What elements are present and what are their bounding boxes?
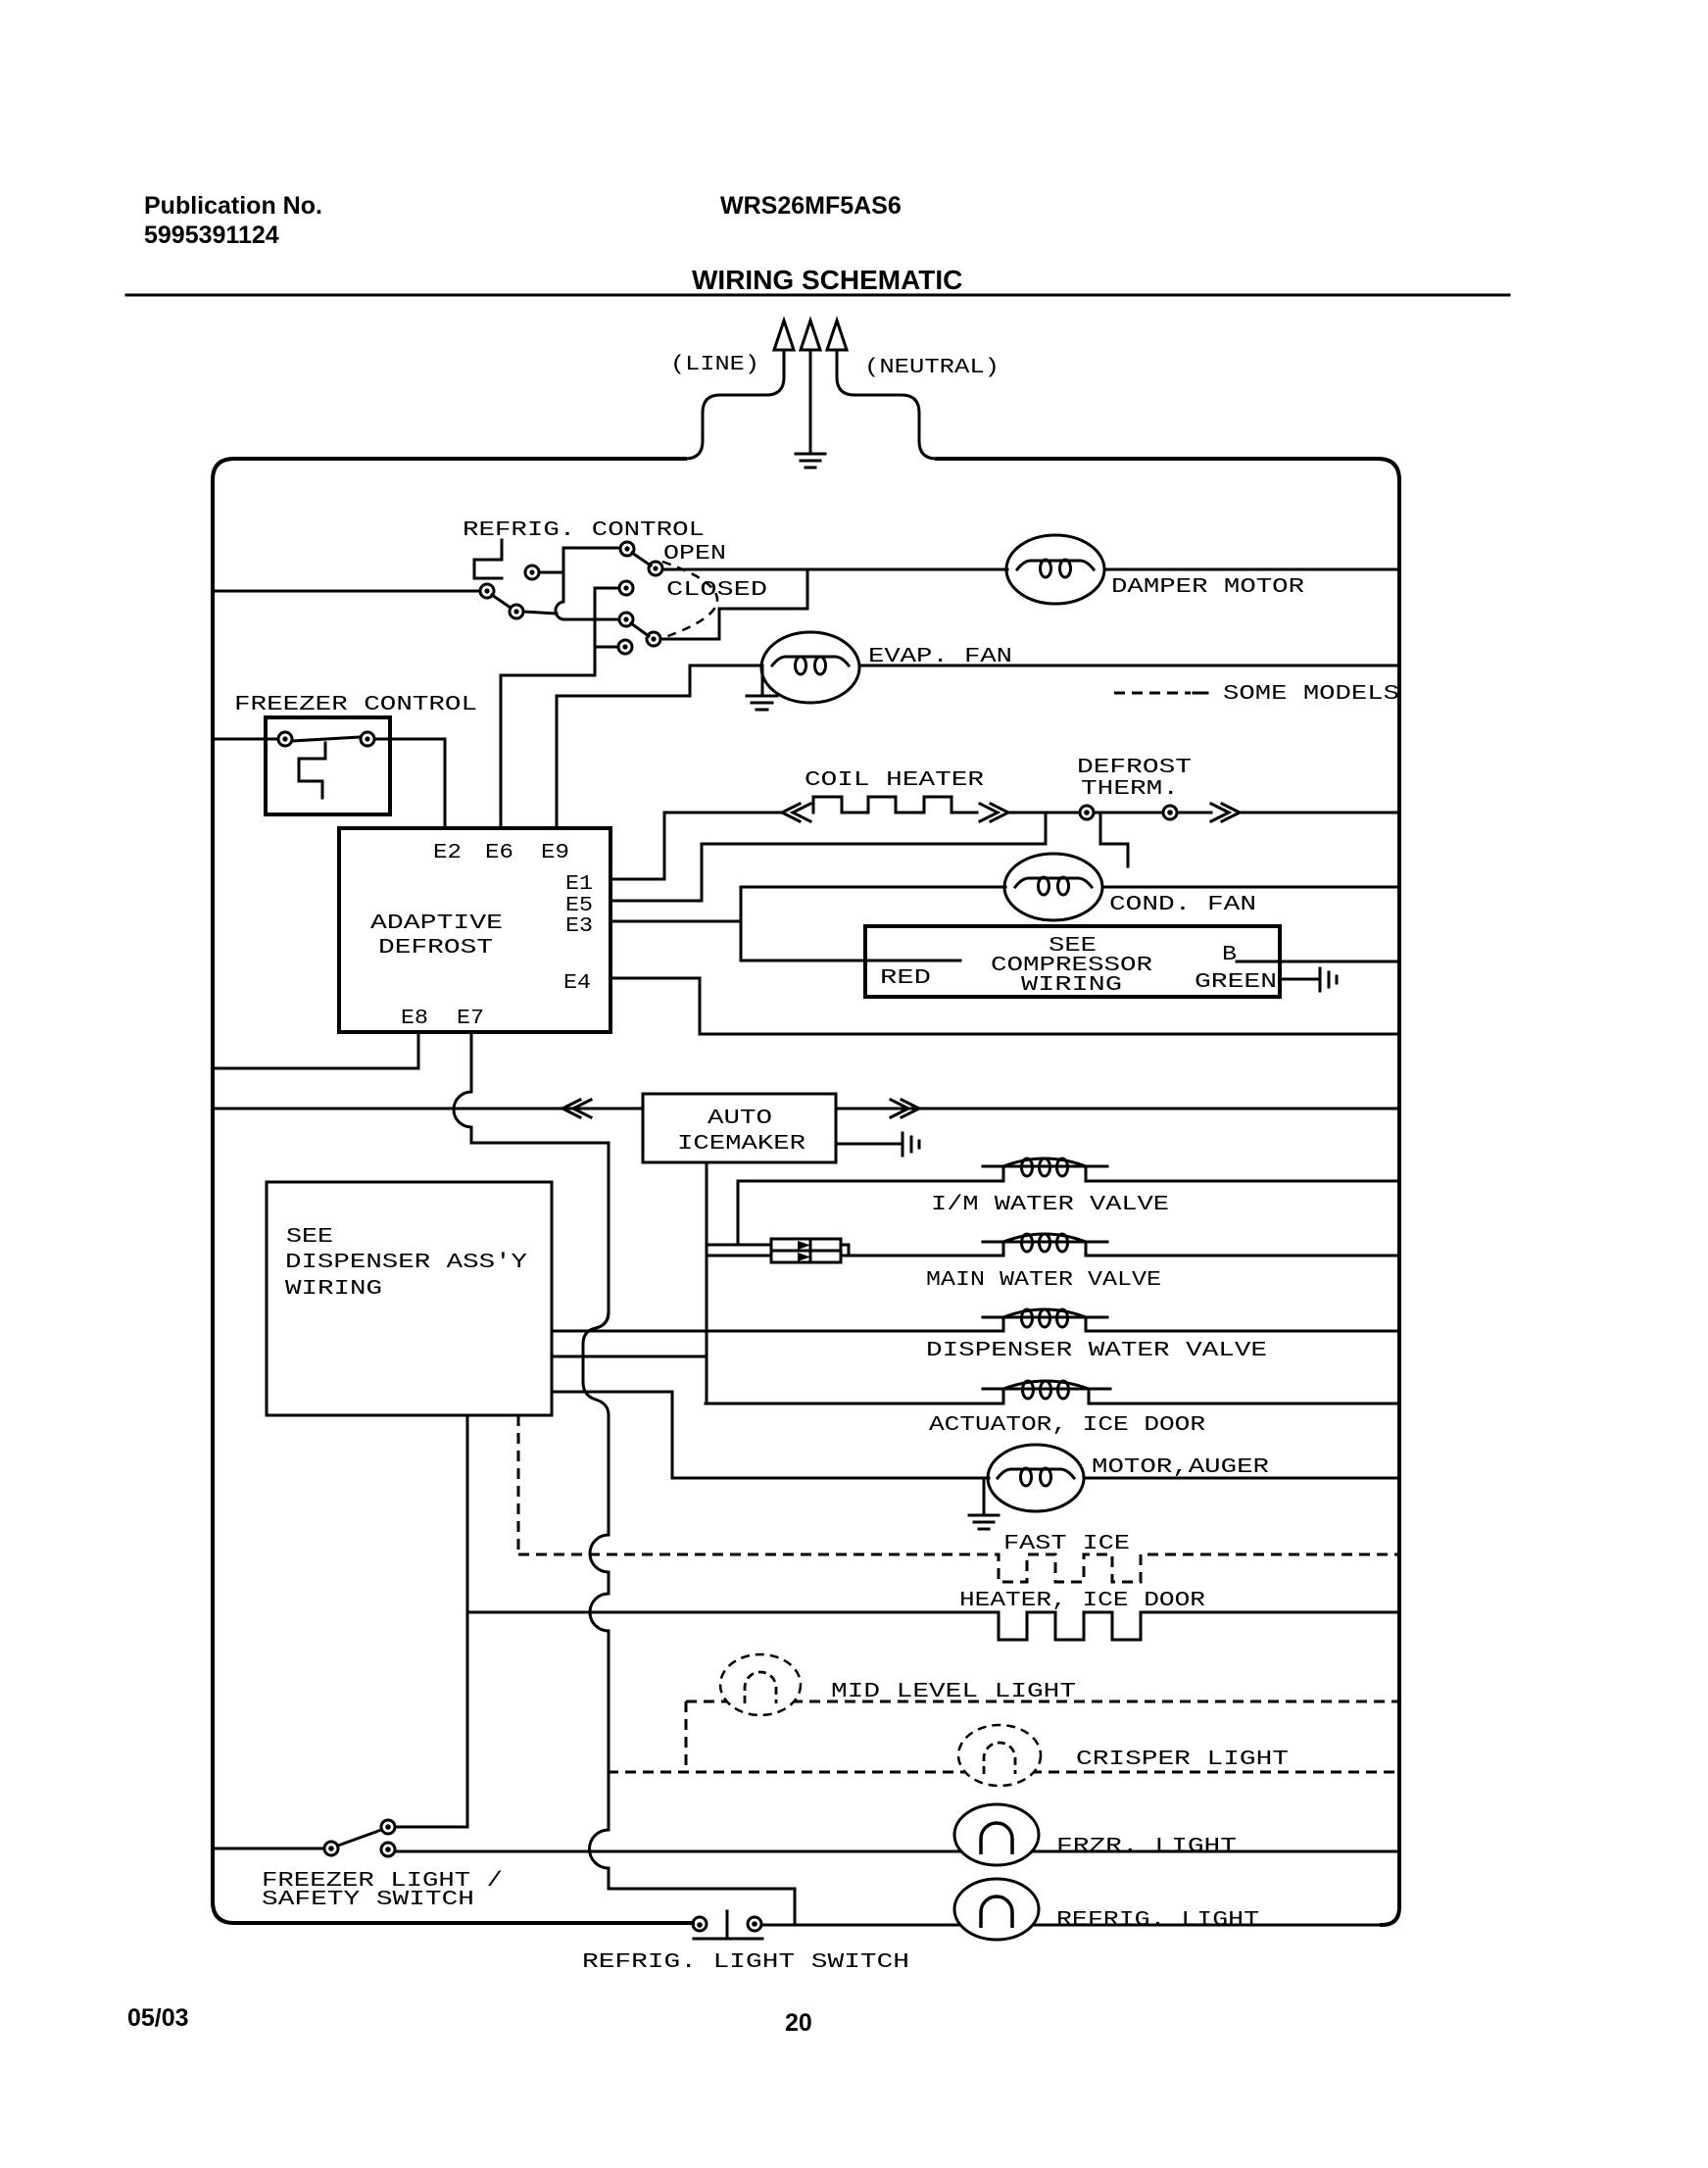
connector chevrons left (icemaker) bbox=[562, 1100, 591, 1117]
svg-text:20: 20 bbox=[785, 2009, 812, 2037]
wire red lead to compressor bbox=[741, 887, 960, 961]
terminal safety switch upper bbox=[381, 1820, 395, 1834]
svg-text:DEFROST: DEFROST bbox=[1077, 757, 1192, 779]
wire T6/T7/T9 drop bus bbox=[501, 588, 595, 675]
wire I/M valve run bbox=[738, 1166, 1399, 1181]
wire diode feed bottom bbox=[707, 1255, 771, 1257]
wire actuator run bbox=[706, 1389, 1399, 1404]
svg-text:E1: E1 bbox=[565, 873, 593, 896]
wire cond fan feed bbox=[741, 886, 1005, 889]
svg-text:E6: E6 bbox=[485, 842, 513, 864]
wire freezer control to E2 bbox=[374, 739, 445, 828]
svg-text:REFRIG. LIGHT SWITCH: REFRIG. LIGHT SWITCH bbox=[582, 1951, 909, 1974]
wire dispenser valve run bbox=[552, 1317, 1399, 1331]
svg-text:SEE: SEE bbox=[286, 1226, 333, 1249]
wire diode feed top bbox=[707, 1244, 771, 1247]
wire B lead to right border bbox=[1237, 961, 1399, 963]
svg-text:E2: E2 bbox=[433, 842, 462, 864]
lamp mid level light (dashed) bbox=[720, 1654, 801, 1715]
box auto icemaker bbox=[643, 1094, 836, 1162]
node ground supply arrow bbox=[801, 320, 820, 453]
svg-text:E8: E8 bbox=[401, 1008, 428, 1030]
terminal refrig light switch left bbox=[693, 1917, 707, 1931]
svg-text:WIRING: WIRING bbox=[285, 1278, 382, 1301]
terminal freezer control right bbox=[361, 732, 374, 746]
svg-text:ADAPTIVE: ADAPTIVE bbox=[370, 912, 503, 935]
wire coil heater feed bbox=[664, 812, 784, 814]
svg-text:I/M WATER VALVE: I/M WATER VALVE bbox=[931, 1194, 1169, 1216]
wire closed contact to damper line bbox=[660, 571, 807, 639]
svg-text:GREEN: GREEN bbox=[1195, 971, 1277, 994]
freezer control bellows bbox=[299, 743, 325, 798]
wire: feed to refrig control bbox=[215, 590, 480, 593]
wire icemaker to right border bbox=[836, 1108, 1399, 1110]
terminal T1 refrig control common bbox=[480, 584, 494, 598]
wire damper feed from T5 bbox=[662, 568, 1007, 571]
terminal T2 bbox=[510, 605, 523, 618]
dashed wire mid level light run bbox=[686, 1700, 1399, 1703]
wire icemaker ground lead bbox=[836, 1143, 901, 1146]
svg-text:CRISPER LIGHT: CRISPER LIGHT bbox=[1076, 1749, 1289, 1771]
connector chevrons right (therm out) bbox=[1211, 804, 1240, 821]
svg-text:(NEUTRAL): (NEUTRAL) bbox=[864, 357, 1000, 379]
svg-text:05/03: 05/03 bbox=[127, 2004, 189, 2032]
svg-text:B: B bbox=[1222, 944, 1237, 966]
solenoid L4 actuator ice door bbox=[983, 1381, 1110, 1399]
wire: outer border right (neutral side) bbox=[937, 459, 1399, 1925]
wire dispenser mid lead to actuator bbox=[552, 1355, 706, 1358]
resistor R1 coil heater bbox=[813, 797, 977, 813]
freezer control box bbox=[266, 717, 390, 814]
terminal T8 bbox=[647, 632, 660, 646]
svg-text:HEATER, ICE DOOR: HEATER, ICE DOOR bbox=[959, 1590, 1205, 1612]
wire refrig light run bbox=[761, 1924, 1384, 1927]
svg-text:DAMPER MOTOR: DAMPER MOTOR bbox=[1111, 576, 1305, 599]
solenoid L2 main water valve bbox=[983, 1234, 1107, 1252]
svg-text:E4: E4 bbox=[563, 972, 591, 995]
lamp crisper light (dashed) bbox=[958, 1725, 1041, 1786]
switch blade T1-T2 bbox=[492, 595, 511, 608]
motor M3 cond fan bbox=[1004, 854, 1102, 920]
wire E4 run to right border bbox=[610, 978, 1399, 1034]
header rule line bbox=[126, 294, 1509, 297]
solenoid L1 I/M water valve bbox=[983, 1158, 1107, 1176]
wire therm bypass step bbox=[1100, 814, 1128, 866]
terminal safety switch left bbox=[324, 1842, 338, 1855]
terminal T3 bbox=[525, 566, 539, 579]
wire E9 riser to evap line bbox=[557, 667, 690, 828]
svg-text:FAST ICE: FAST ICE bbox=[1003, 1533, 1130, 1555]
wire freezer light feed from border bbox=[215, 1848, 324, 1850]
terminal T5 bbox=[649, 562, 662, 575]
wire E7 drop with hop bbox=[454, 1032, 609, 1312]
svg-text:DISPENSER ASS'Y: DISPENSER ASS'Y bbox=[285, 1252, 528, 1274]
wire main valve run bbox=[849, 1242, 1399, 1256]
wire I/M drop to diode bus bbox=[737, 1181, 740, 1245]
svg-text:ACTUATOR, ICE DOOR: ACTUATOR, ICE DOOR bbox=[929, 1414, 1205, 1437]
wire heater ice door run bbox=[467, 1612, 1399, 1640]
wire evap fan feed bbox=[690, 665, 762, 667]
svg-text:E7: E7 bbox=[457, 1008, 484, 1030]
svg-text:EVAP. FAN: EVAP. FAN bbox=[868, 646, 1012, 668]
motor M1 damper bbox=[1006, 535, 1104, 604]
box see dispenser assy wiring bbox=[267, 1182, 552, 1415]
wire dispenser drop bus with bulge bbox=[583, 1312, 795, 1923]
svg-text:OPEN: OPEN bbox=[663, 543, 726, 566]
refrig control bellows bracket bbox=[474, 540, 502, 578]
wire T9 stub bbox=[598, 646, 618, 649]
svg-text:Publication No.: Publication No. bbox=[144, 192, 322, 220]
svg-text:DISPENSER WATER VALVE: DISPENSER WATER VALVE bbox=[926, 1340, 1267, 1362]
wire therm to right border bbox=[1240, 812, 1399, 814]
svg-text:REFRIG. CONTROL: REFRIG. CONTROL bbox=[463, 519, 705, 542]
svg-text:COIL HEATER: COIL HEATER bbox=[805, 769, 985, 792]
box compressor wiring note bbox=[865, 926, 1280, 997]
svg-text:AUTO: AUTO bbox=[708, 1108, 772, 1130]
svg-text:DEFROST: DEFROST bbox=[378, 937, 493, 960]
terminal T7 bbox=[619, 613, 633, 626]
terminal defrost therm right bbox=[1163, 806, 1177, 819]
svg-text:E9: E9 bbox=[541, 842, 569, 864]
lamp refrig light bbox=[954, 1879, 1039, 1940]
svg-text:SAFETY SWITCH: SAFETY SWITCH bbox=[262, 1889, 474, 1911]
wire hook to T7 bbox=[565, 618, 617, 621]
switch blade T4-T5 bbox=[632, 553, 651, 566]
wire safety switch riser bbox=[466, 1415, 469, 1826]
wire T6 stub bbox=[595, 587, 619, 590]
wire cond fan to right border bbox=[1102, 886, 1399, 889]
switch blade safety switch bbox=[338, 1830, 381, 1846]
svg-text:COND. FAN: COND. FAN bbox=[1109, 894, 1256, 916]
terminal defrost therm left bbox=[1080, 806, 1094, 819]
wire E6 drop bbox=[500, 675, 503, 828]
wire: outer border left (line side) bbox=[213, 459, 693, 1923]
wire therm out bbox=[1177, 812, 1211, 814]
solenoid L3 dispenser water valve bbox=[983, 1309, 1107, 1327]
wire T3 stub bbox=[539, 571, 563, 574]
svg-text:FRZR. LIGHT: FRZR. LIGHT bbox=[1056, 1836, 1237, 1858]
wire riser T2/T4 with hook bbox=[556, 548, 565, 619]
ground symbol (icemaker) bbox=[903, 1133, 919, 1156]
svg-text:MOTOR,AUGER: MOTOR,AUGER bbox=[1092, 1456, 1270, 1479]
wire frzr light run bbox=[395, 1850, 1398, 1853]
svg-text:THERM.: THERM. bbox=[1081, 778, 1179, 801]
svg-text:RED: RED bbox=[880, 967, 931, 990]
node LINE supply arrow bbox=[685, 320, 794, 459]
node NEUTRAL supply arrow bbox=[827, 320, 937, 459]
wire auger to right border bbox=[1084, 1477, 1399, 1480]
svg-text:SOME MODELS: SOME MODELS bbox=[1223, 683, 1399, 706]
ground symbol (auger motor) bbox=[969, 1478, 999, 1529]
wire feed freezer control bbox=[215, 738, 278, 741]
dashed fast ice drop bbox=[517, 1415, 520, 1554]
terminal refrig light switch right bbox=[748, 1917, 761, 1931]
svg-text:MID LEVEL LIGHT: MID LEVEL LIGHT bbox=[831, 1681, 1076, 1703]
svg-text:WIRING: WIRING bbox=[1021, 974, 1122, 997]
switch blade freezer control bbox=[292, 737, 361, 741]
wire icemaker drop bus bbox=[706, 1162, 708, 1404]
wire between therm terminals bbox=[1094, 812, 1163, 814]
wire T2 stub bbox=[523, 612, 557, 614]
wire E1 to coil heater bbox=[610, 813, 664, 879]
wire E5 riser bbox=[610, 813, 1046, 901]
connector chevrons right (coil heater) bbox=[980, 804, 1008, 821]
switch motion dashed arc bbox=[662, 562, 717, 638]
wire green lead bbox=[1280, 978, 1318, 981]
ground symbol (supply) bbox=[796, 454, 825, 468]
ground symbol (compressor green) bbox=[1320, 968, 1337, 991]
wire dispenser lower lead to auger bbox=[552, 1392, 989, 1478]
wire E3 to cond fan branch bbox=[610, 887, 741, 921]
terminal safety switch lower bbox=[381, 1843, 395, 1856]
refrig light switch actuator bbox=[694, 1911, 762, 1939]
svg-text:ICEMAKER: ICEMAKER bbox=[677, 1133, 806, 1156]
motor M2 evap fan bbox=[761, 632, 859, 703]
terminal T6 closed contact bbox=[619, 581, 633, 595]
dashed wire fast ice run bbox=[518, 1554, 1399, 1582]
wire icemaker feed from left border bbox=[215, 1108, 643, 1110]
svg-text:E5: E5 bbox=[565, 895, 593, 917]
svg-text:WIRING SCHEMATIC: WIRING SCHEMATIC bbox=[692, 265, 962, 295]
legend dashed = some models bbox=[1114, 692, 1207, 695]
dashed drop mid level to crisper bbox=[685, 1701, 688, 1772]
ground symbol (evap fan) bbox=[747, 665, 777, 710]
lamp frzr light bbox=[954, 1804, 1039, 1865]
wire evap fan to right border bbox=[859, 665, 1399, 667]
connector chevrons left (coil heater) bbox=[782, 804, 810, 821]
wire safety switch upper to riser bbox=[395, 1826, 467, 1829]
terminal T4 open contact bbox=[620, 542, 634, 556]
svg-text:MAIN WATER VALVE: MAIN WATER VALVE bbox=[926, 1269, 1161, 1292]
terminal freezer control left bbox=[278, 732, 292, 746]
dashed wire crisper light run bbox=[608, 1771, 1399, 1774]
diode D1 bridge bbox=[771, 1239, 849, 1262]
terminal T9 bbox=[618, 640, 632, 654]
svg-text:REFRIG. LIGHT: REFRIG. LIGHT bbox=[1056, 1909, 1259, 1932]
wire damper to right border bbox=[1104, 568, 1399, 571]
connector chevrons right (icemaker) bbox=[891, 1100, 919, 1117]
wire to defrost thermostat bbox=[1008, 812, 1080, 814]
switch blade T7-T8 bbox=[631, 623, 649, 636]
svg-text:WRS26MF5AS6: WRS26MF5AS6 bbox=[720, 192, 902, 220]
wire E8 to left border bbox=[215, 1032, 418, 1068]
svg-text:(LINE): (LINE) bbox=[670, 354, 759, 376]
motor M4 auger bbox=[988, 1445, 1084, 1511]
wire T4 feed bbox=[563, 547, 619, 550]
svg-text:5995391124: 5995391124 bbox=[144, 222, 279, 249]
svg-text:E3: E3 bbox=[565, 915, 593, 938]
box U1 adaptive defrost control bbox=[339, 828, 610, 1032]
svg-text:FREEZER CONTROL: FREEZER CONTROL bbox=[234, 694, 477, 716]
